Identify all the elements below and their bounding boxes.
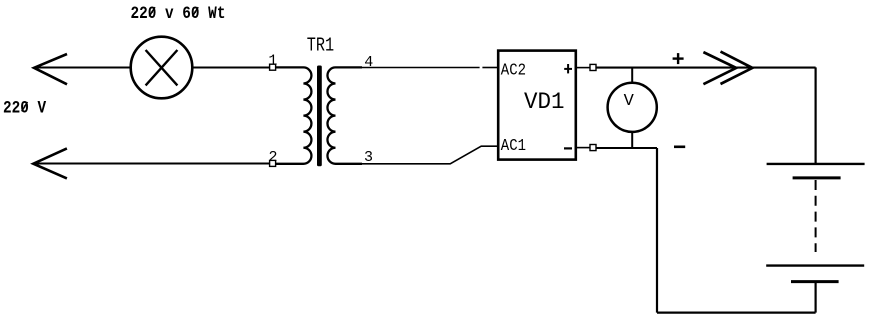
battery dashed continuation	[815, 180, 817, 252]
wire negative return vertical	[656, 148, 658, 313]
transformer TR1 core	[317, 66, 322, 167]
bridge rectifier VD1 body	[498, 51, 576, 160]
battery cell 2 long plate	[766, 264, 864, 266]
battery cell 2 short plate	[791, 280, 839, 283]
pin 1 terminal square	[270, 64, 276, 70]
transformer TR1 secondary winding	[327, 67, 362, 163]
input arrow top	[34, 54, 67, 84]
VD1 minus output terminal square	[590, 145, 596, 151]
wire VD1 minus stub	[576, 147, 590, 149]
wire bottom input	[33, 163, 269, 165]
svg-text:TR1: TR1	[307, 36, 334, 57]
svg-text:AC1: AC1	[501, 136, 526, 156]
plus polarity label	[673, 53, 684, 64]
wire VD1 plus rail	[596, 67, 816, 69]
net label 220 V	[3, 97, 46, 118]
svg-text:V: V	[624, 92, 635, 111]
wire TR1 pin 3 to VD1 AC1	[360, 146, 498, 164]
wire battery bottom	[814, 282, 816, 313]
input arrow bottom	[33, 148, 67, 178]
wire VD1 plus stub	[576, 67, 590, 69]
lamp	[131, 37, 193, 99]
svg-text:VD1: VD1	[524, 88, 565, 115]
voltmeter	[608, 83, 657, 132]
VD1 plus pin mark	[564, 64, 572, 73]
wire VD1 minus rail	[596, 147, 657, 149]
pin 2 terminal square	[270, 160, 276, 166]
output connector chevrons	[703, 52, 752, 85]
voltmeter tap wire bottom	[631, 132, 633, 148]
wire lamp to TR1 pin 1	[192, 67, 269, 69]
transformer TR1 primary winding	[276, 67, 312, 163]
wire negative return bottom	[657, 312, 816, 314]
wire plus rail to battery top	[814, 67, 816, 163]
battery cell 1 long plate	[767, 163, 865, 165]
minus polarity label	[674, 146, 685, 149]
battery cell 1 short plate	[793, 176, 841, 179]
VD1 plus output terminal square	[590, 64, 596, 70]
svg-text:AC2: AC2	[501, 60, 526, 80]
voltmeter tap wire top	[631, 68, 633, 83]
svg-text:220 v 60 Wt: 220 v 60 Wt	[131, 2, 226, 23]
wire top input	[34, 67, 131, 69]
wire TR1 pin 4 to VD1 AC2	[360, 67, 498, 69]
VD1 minus pin mark	[564, 147, 572, 149]
label 220 v 60 Wt	[131, 2, 226, 23]
